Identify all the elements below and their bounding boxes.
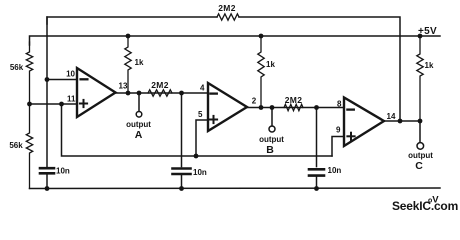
svg-text:10: 10 — [66, 70, 75, 79]
svg-text:13: 13 — [119, 82, 128, 91]
resistor 2M2 (top feedback) — [217, 14, 239, 20]
svg-text:output: output — [126, 120, 151, 129]
wire output C drop — [419, 121, 421, 142]
wire U1 pin 11 input — [30, 103, 78, 105]
svg-text:1k: 1k — [425, 61, 434, 70]
resistor R1 56k (upper) — [26, 42, 32, 104]
svg-text:B: B — [266, 144, 274, 156]
wire C1 branch (feedback node vertical) — [46, 17, 48, 167]
svg-text:9: 9 — [336, 126, 341, 135]
node: 1k1 bottom on U1 output — [126, 91, 131, 96]
svg-text:2M2: 2M2 — [218, 3, 235, 13]
svg-text:C: C — [415, 160, 423, 172]
svg-text:output: output — [259, 135, 284, 144]
U2 plus symbol — [210, 116, 217, 123]
op-amp U2 — [208, 83, 247, 131]
resistor 1k (stage 3 pull-up) — [417, 36, 423, 121]
op-amp U1 — [77, 68, 116, 117]
wire U1 output to pin 4 — [116, 92, 209, 94]
node: pin10 / C1 / feedback junction — [45, 77, 50, 82]
resistor 1k (stage 2 pull-up) — [258, 36, 264, 108]
svg-text:56k: 56k — [10, 63, 24, 72]
svg-text:output: output — [408, 151, 433, 160]
node: C3 on ground rail — [314, 186, 319, 191]
output B terminal circle — [269, 126, 275, 132]
wire C1 to ground — [46, 175, 48, 189]
resistor 2M2 (stage2 to stage3) — [284, 104, 303, 110]
node: C1 on ground rail — [45, 186, 50, 191]
svg-text:1k: 1k — [135, 58, 144, 67]
wire U2 output to pin 8 — [247, 107, 344, 109]
wire U3 pin 9 step — [332, 137, 344, 157]
node: 56k divider midpoint — [27, 102, 32, 107]
node: C2 on ground rail — [179, 186, 184, 191]
node: pin 5 on reference wire — [194, 154, 199, 159]
wire C3 branch vertical — [316, 108, 318, 167]
node: feedback tap on U3 output — [398, 119, 403, 124]
svg-text:SeekIC.com: SeekIC.com — [392, 199, 458, 213]
resistor 1k (stage 1 pull-up) — [125, 36, 131, 93]
svg-text:8: 8 — [337, 99, 342, 108]
svg-text:10n: 10n — [328, 166, 342, 175]
node: 1k1 top on +5V rail — [126, 34, 131, 39]
node: U2 minus input / C2 — [179, 91, 184, 96]
wire U1 pin 10 input — [47, 79, 77, 81]
U2 minus symbol — [210, 92, 216, 94]
resistor 2M2 (stage1 to stage2) — [148, 90, 172, 96]
U1 plus symbol — [80, 100, 87, 107]
node: 1k2 bottom on U2 output — [259, 105, 264, 110]
U3 plus symbol — [347, 133, 354, 140]
wire U2 pin 5 step — [196, 120, 208, 156]
svg-text:2: 2 — [252, 96, 257, 105]
wire C2 branch vertical — [181, 93, 183, 167]
wire top feedback horizontal left segment — [47, 17, 217, 24]
power rail +5V — [30, 36, 441, 45]
node: 1k2 top on +5V rail — [259, 34, 264, 39]
wire output A drop — [138, 93, 140, 111]
output C terminal circle — [417, 143, 424, 150]
svg-text:2M2: 2M2 — [151, 80, 168, 90]
svg-text:4: 4 — [200, 84, 205, 93]
svg-text:10n: 10n — [193, 168, 207, 177]
wire reference node from pin 11 down and right — [62, 104, 333, 156]
node: output A tap — [137, 91, 142, 96]
svg-text:5: 5 — [198, 110, 203, 119]
U3 minus symbol — [347, 108, 353, 110]
wire ground rail 0V — [30, 187, 441, 190]
wire C2 to ground — [181, 175, 183, 188]
node: U3 minus input / C3 — [314, 105, 319, 110]
node: pin 11 to reference drop — [59, 102, 64, 107]
svg-text:2M2: 2M2 — [285, 95, 302, 105]
svg-text:56k: 56k — [9, 141, 23, 150]
node: 1k3 bottom / output C — [418, 119, 423, 124]
wire top feedback horizontal right segment and drop to U3 output — [239, 17, 400, 121]
U1 minus symbol — [81, 78, 88, 80]
svg-text:+5V: +5V — [418, 26, 437, 37]
node: 1k3 top on +5V rail — [418, 34, 423, 39]
node: output B tap — [270, 105, 275, 110]
capacitor C1 10n plates — [40, 168, 54, 173]
wire output B drop — [271, 108, 273, 127]
svg-text:1k: 1k — [266, 60, 275, 69]
svg-text:11: 11 — [67, 95, 76, 104]
wire U3 output — [384, 120, 420, 122]
svg-text:14: 14 — [387, 112, 396, 121]
output A terminal circle — [136, 112, 142, 118]
wire C3 to ground — [316, 177, 318, 189]
op-amp U3 — [344, 98, 384, 147]
capacitor C3 10n plates — [309, 169, 324, 175]
resistor R2 56k (lower) — [26, 104, 32, 189]
capacitor C2 10n plates — [173, 169, 191, 175]
svg-text:A: A — [135, 129, 143, 141]
svg-text:10n: 10n — [56, 167, 70, 176]
